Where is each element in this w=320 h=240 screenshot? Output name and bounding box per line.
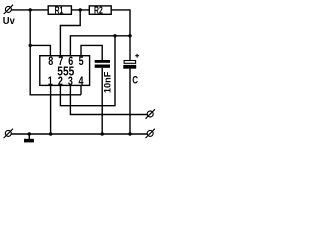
ground xyxy=(24,134,34,142)
svg-text:5: 5 xyxy=(79,56,84,68)
svg-text:R2: R2 xyxy=(94,5,103,16)
capacitor C top plate (polarized, hollow) xyxy=(123,61,136,69)
svg-text:4: 4 xyxy=(79,76,84,88)
svg-text:C: C xyxy=(132,75,138,87)
svg-text:8: 8 xyxy=(48,56,53,68)
wire 10nF bottom to ground rail xyxy=(101,68,103,134)
resistor R2 xyxy=(89,5,111,16)
terminal output top-right xyxy=(146,109,155,118)
capacitor 10nF plates xyxy=(95,60,110,68)
junction dot node B left (pin2 riser) xyxy=(113,34,116,37)
junction dot pin1 at rail xyxy=(49,132,52,135)
wire pin 1 to ground rail xyxy=(50,85,52,134)
svg-text:Uv: Uv xyxy=(3,16,15,27)
wire Uv vertical branch down to pin1/pin4 rail xyxy=(30,10,81,95)
wire pin 6 loop to node B xyxy=(70,36,130,56)
wire branch to pin 8 xyxy=(30,45,50,55)
node A junction dot on top rail (Uv branch) xyxy=(29,8,32,11)
junction dot node B at capacitor C top xyxy=(128,34,131,37)
junction dot ground symbol xyxy=(28,132,31,135)
wire capacitor C bottom to ground rail xyxy=(129,69,131,134)
wire pin 3 output to terminal xyxy=(70,85,147,114)
svg-text:R1: R1 xyxy=(55,5,64,16)
ground rail (bottom) xyxy=(11,133,147,135)
junction dot 10nF at rail xyxy=(101,132,104,135)
terminal Uv (input, top-left) xyxy=(4,5,13,14)
op IC U1 555 box xyxy=(40,56,90,88)
wire pin 4 stub xyxy=(80,85,82,94)
wire node to pin 7 xyxy=(60,10,80,56)
junction dot capacitor C at rail xyxy=(128,132,131,135)
wire pin 2 down and right and up to node B xyxy=(60,36,115,106)
plus sign of capacitor C xyxy=(135,54,139,58)
junction dot pin8 branch xyxy=(29,44,32,47)
wire top rail from Uv terminal to R1 xyxy=(11,9,48,11)
wire pin 5 loop to capacitor 10nF xyxy=(81,45,102,60)
wire R1 to R2 xyxy=(71,9,89,11)
wire R2 right to corner and down to node B xyxy=(111,10,130,61)
terminal output bottom-right xyxy=(146,129,155,138)
svg-text:10nF: 10nF xyxy=(102,71,112,93)
junction dot R1-R2 node xyxy=(79,8,82,11)
resistor R1 xyxy=(48,5,71,16)
terminal bottom-left xyxy=(4,129,13,138)
